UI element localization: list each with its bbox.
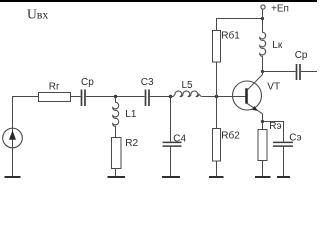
svg-text:Rг: Rг — [49, 81, 60, 92]
resistor Rб1 — [213, 30, 241, 62]
wire — [217, 19, 263, 31]
wire — [86, 96, 145, 98]
svg-text:VT: VT — [267, 81, 280, 92]
svg-text:Cр: Cр — [81, 77, 94, 88]
svg-text:Cр: Cр — [295, 50, 308, 61]
node Uвх — [27, 7, 48, 22]
wire — [301, 71, 317, 73]
power +Еп terminal — [261, 3, 289, 14]
inductor Lк — [260, 19, 283, 72]
resistor Rб2 — [213, 129, 241, 162]
capacitor Сэ — [273, 132, 302, 146]
wire — [71, 96, 81, 98]
svg-text:L5: L5 — [182, 80, 194, 91]
ground — [162, 176, 180, 178]
node (C4 tap) — [169, 95, 172, 98]
wire — [263, 122, 284, 142]
wire — [263, 71, 296, 73]
resistor Rэ — [258, 121, 282, 161]
ground — [108, 176, 126, 178]
capacitor C4 — [163, 134, 187, 147]
svg-text:Lк: Lк — [272, 40, 283, 51]
svg-text:Rб1: Rб1 — [221, 30, 240, 42]
wire — [150, 96, 173, 98]
wire — [262, 122, 264, 130]
wire — [13, 97, 39, 129]
wire — [262, 161, 264, 177]
wire — [12, 148, 14, 176]
capacitor C3 — [141, 77, 154, 106]
resistor R2 — [112, 138, 139, 169]
ground — [255, 176, 271, 178]
ground — [277, 176, 290, 178]
inductor L5 — [171, 80, 202, 97]
svg-text:L1: L1 — [125, 109, 137, 120]
node (base divider tap) — [215, 95, 218, 98]
svg-text:C4: C4 — [173, 134, 186, 145]
node (L1 tap) — [114, 95, 117, 98]
svg-text:Rэ: Rэ — [269, 121, 281, 132]
svg-text:Cэ: Cэ — [289, 132, 301, 143]
inductor L1 — [113, 97, 137, 138]
node (collector) — [261, 70, 264, 73]
wire — [262, 9, 264, 18]
ground — [5, 176, 21, 178]
current source — [3, 128, 23, 148]
wire — [170, 97, 172, 142]
wire (base line) — [201, 96, 246, 98]
svg-text:Rб2: Rб2 — [221, 129, 240, 141]
svg-text:C3: C3 — [141, 77, 154, 88]
resistor Rг — [39, 81, 71, 101]
wire — [170, 147, 172, 176]
wire — [216, 161, 218, 176]
transistor VT — [233, 72, 281, 122]
svg-text:+Еп: +Еп — [271, 3, 289, 14]
svg-text:Uвх: Uвх — [27, 7, 48, 22]
capacitor Ср (output) — [295, 50, 308, 80]
capacitor Ср (input) — [81, 77, 94, 106]
wire — [115, 169, 117, 177]
node (supply junction) — [261, 17, 264, 20]
wire — [216, 62, 218, 129]
wire — [283, 147, 285, 176]
svg-text:R2: R2 — [125, 138, 138, 149]
node (emitter) — [261, 120, 264, 123]
ground — [209, 176, 224, 178]
